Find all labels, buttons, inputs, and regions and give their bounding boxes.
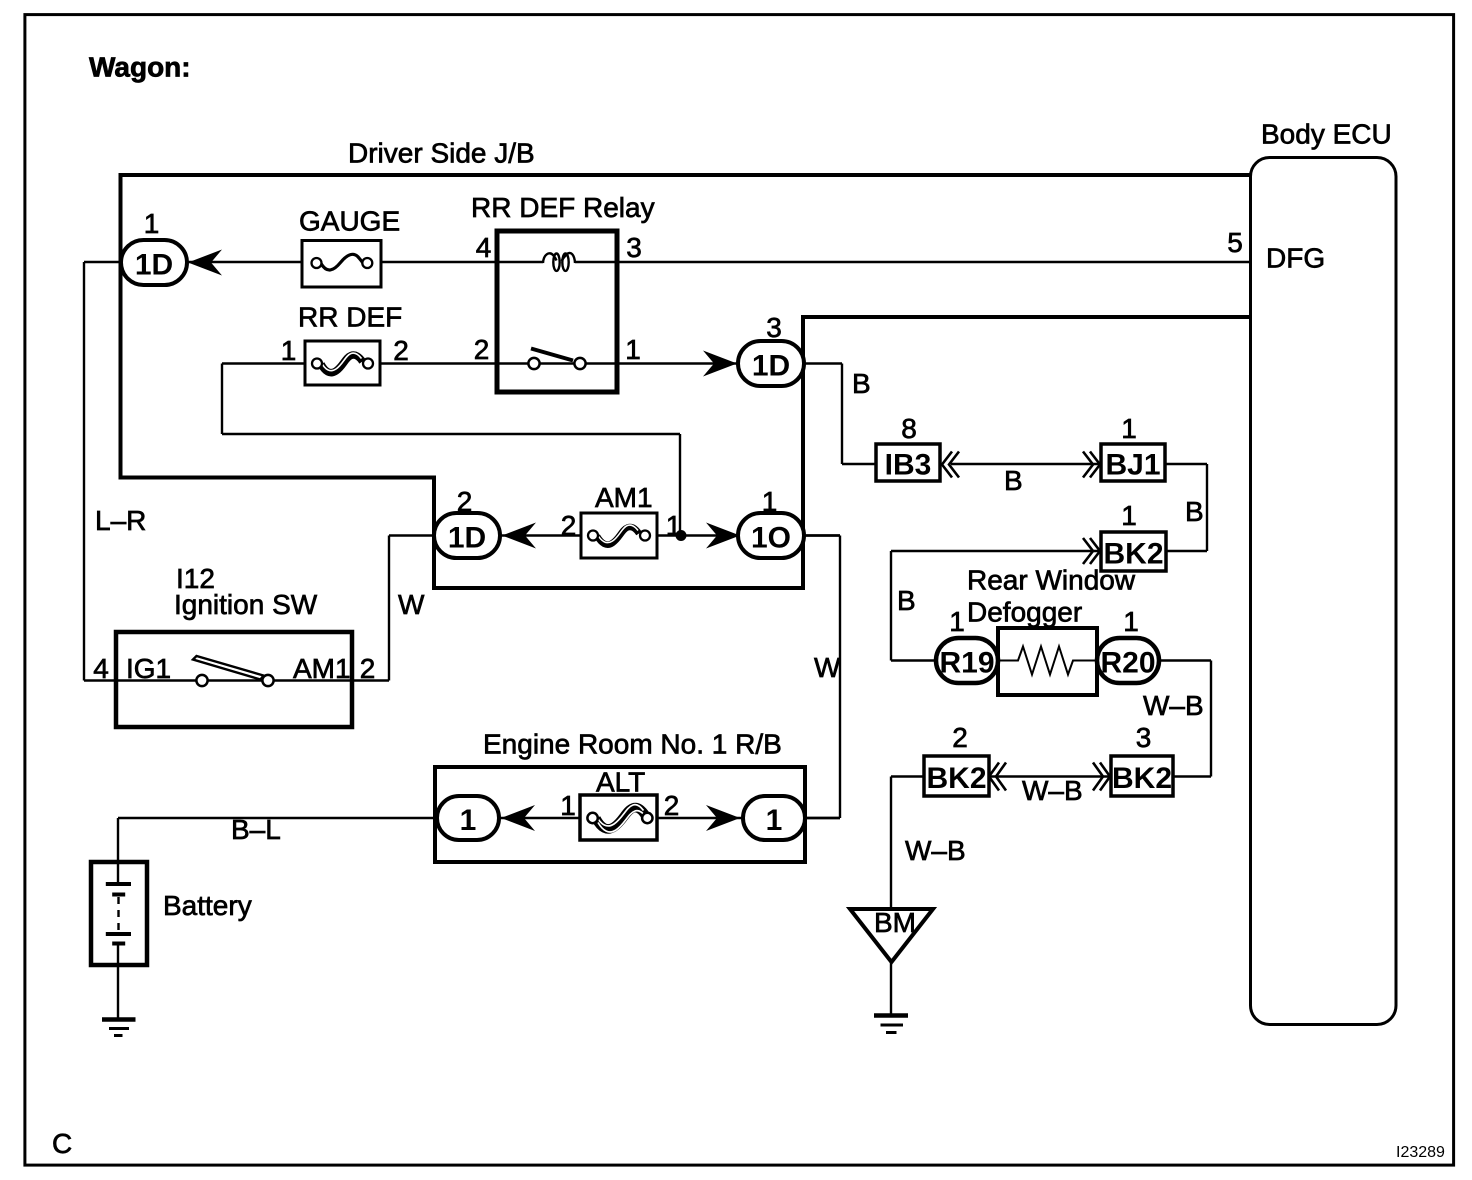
- ignition internal wire: [116, 679, 352, 681]
- svg-text:Ignition SW: Ignition SW: [174, 589, 318, 620]
- label RR DEF: [298, 302, 402, 333]
- connector oval R20: [1097, 638, 1159, 683]
- svg-text:BM: BM: [874, 907, 916, 938]
- svg-text:BK2: BK2: [926, 762, 986, 795]
- pin 8 above IB3: [901, 413, 917, 444]
- connector box BK2 pin2: [924, 756, 989, 796]
- arrow at 1D pin2: [502, 523, 536, 549]
- pin 4 ignition: [93, 653, 109, 684]
- svg-text:DFG: DFG: [1266, 243, 1325, 274]
- pin 3 relay: [626, 232, 642, 263]
- svg-text:1: 1: [762, 486, 778, 517]
- svg-text:L–R: L–R: [95, 505, 146, 536]
- arrow into R/B right oval: [706, 805, 740, 831]
- fuse ALT element: [587, 805, 652, 832]
- relay switch wire: [497, 362, 617, 364]
- svg-text:2: 2: [664, 790, 680, 821]
- svg-text:1: 1: [560, 790, 576, 821]
- svg-text:1: 1: [666, 510, 682, 541]
- wire BK2 pin2 to BM: [891, 777, 924, 910]
- svg-text:1: 1: [460, 804, 477, 837]
- pin 2 relay: [474, 334, 490, 365]
- fuse GAUGE box: [302, 241, 381, 288]
- ignition terminal AM1: [293, 653, 351, 684]
- svg-text:1: 1: [949, 606, 965, 637]
- pin 2 ALT: [664, 790, 680, 821]
- Engine Room No.1 R/B box: [435, 767, 805, 862]
- label I12: [176, 563, 215, 594]
- node B label near 1D pin3: [852, 368, 871, 399]
- wire BM to ground: [890, 962, 892, 1015]
- svg-text:AM1: AM1: [595, 482, 653, 513]
- fuse RR DEF element: [312, 353, 373, 373]
- svg-text:W: W: [814, 652, 841, 683]
- svg-text:RR DEF: RR DEF: [298, 302, 402, 333]
- pin 3 above 1D: [766, 312, 782, 343]
- svg-text:C: C: [52, 1128, 72, 1159]
- node B label at R19: [897, 585, 916, 616]
- pin 1 above R19: [949, 606, 965, 637]
- svg-text:2: 2: [474, 334, 490, 365]
- connector oval 1D pin1: [121, 240, 187, 285]
- chevron after IB3: [942, 452, 959, 478]
- pin 3 above BK2: [1136, 722, 1152, 753]
- wire W from 1O to Engine Room R/B: [804, 536, 840, 819]
- svg-text:IB3: IB3: [885, 449, 932, 482]
- svg-text:3: 3: [626, 232, 642, 263]
- pin 5 ECU: [1227, 227, 1243, 258]
- ignition switch I12 box: [116, 632, 352, 727]
- fuse GAUGE element: [312, 254, 373, 270]
- svg-text:IG1: IG1: [126, 653, 171, 684]
- svg-text:B–L: B–L: [231, 814, 281, 845]
- wire B from 1D pin3 to IB3: [804, 364, 876, 465]
- svg-text:2: 2: [393, 335, 409, 366]
- ground BM: [874, 1016, 908, 1033]
- title Wagon:: [89, 52, 191, 83]
- svg-text:BJ1: BJ1: [1105, 449, 1160, 482]
- svg-text:W: W: [398, 589, 425, 620]
- pin 2 above 1D: [457, 486, 473, 517]
- connector oval R19: [936, 638, 998, 683]
- label Rear Window: [967, 565, 1136, 596]
- label Driver Side J/B: [348, 138, 535, 169]
- pin 1 relay: [625, 334, 641, 365]
- wire GAUGE row to ECU pin 5: [84, 261, 1251, 263]
- R/B internal wire: [435, 817, 805, 819]
- label RR DEF Relay: [471, 192, 655, 223]
- svg-text:1D: 1D: [135, 249, 173, 282]
- label Battery: [163, 890, 252, 921]
- node B label IB3-BJ1: [1004, 465, 1023, 496]
- arrow at 1D pin1: [188, 250, 222, 276]
- svg-text:1: 1: [1123, 606, 1139, 637]
- Body ECU box: [1251, 158, 1397, 1025]
- node L-R label: [95, 505, 146, 536]
- label Ignition SW: [174, 589, 318, 620]
- wire AM1 row: [389, 534, 840, 536]
- wire BK2 pin3 to BK2 pin2: [989, 775, 1111, 777]
- svg-text:ALT: ALT: [596, 767, 645, 798]
- pin 2 AM1: [561, 510, 577, 541]
- pin 2 ignition: [360, 653, 376, 684]
- node B label BJ1-BK2: [1185, 496, 1204, 527]
- node W-B label under R20: [1143, 690, 1204, 721]
- label GAUGE: [299, 206, 400, 237]
- pin 2 above BK2: [952, 722, 968, 753]
- arrow into 1D pin3: [703, 351, 737, 377]
- svg-text:W–B: W–B: [905, 835, 966, 866]
- svg-text:RR DEF Relay: RR DEF Relay: [471, 192, 655, 223]
- ground point BM triangle: [850, 907, 933, 962]
- svg-text:W–B: W–B: [1143, 690, 1204, 721]
- svg-text:B: B: [1185, 496, 1204, 527]
- svg-text:1: 1: [1121, 413, 1137, 444]
- ignition contacts: [196, 675, 273, 686]
- svg-text:1D: 1D: [448, 522, 486, 555]
- label Defogger: [967, 597, 1082, 628]
- svg-text:3: 3: [766, 312, 782, 343]
- relay RR DEF Relay box: [497, 231, 617, 392]
- chevron before BJ1: [1083, 452, 1100, 478]
- pin 1 above 1O: [762, 486, 778, 517]
- node W-B label BK2-BK2: [1022, 775, 1083, 806]
- svg-text:1: 1: [766, 804, 783, 837]
- defogger resistor element: [998, 647, 1097, 675]
- relay coil: [497, 253, 617, 271]
- wire RR DEF row: [222, 362, 738, 364]
- label AM1: [595, 482, 653, 513]
- ignition terminal IG1: [126, 653, 171, 684]
- svg-text:Engine Room No. 1 R/B: Engine Room No. 1 R/B: [483, 729, 782, 760]
- node W-B label above BM: [905, 835, 966, 866]
- connector box BJ1: [1101, 444, 1165, 482]
- wire L-R vertical: [84, 262, 118, 681]
- svg-text:3: 3: [1136, 722, 1152, 753]
- chevron before BK2 pin1: [1083, 538, 1100, 564]
- fuse AM1 element: [588, 525, 650, 545]
- pin 1 ALT: [560, 790, 576, 821]
- pin 1 above BK2: [1121, 500, 1137, 531]
- pin 2 RR DEF: [393, 335, 409, 366]
- svg-text:5: 5: [1227, 227, 1243, 258]
- pin 1 RR DEF: [281, 335, 297, 366]
- svg-text:Driver Side J/B: Driver Side J/B: [348, 138, 535, 169]
- wire ignition switch row: [116, 536, 389, 681]
- connector oval 1O pin1: [738, 513, 804, 558]
- svg-text:1: 1: [144, 208, 160, 239]
- pin 1 above 1D: [144, 208, 160, 239]
- svg-text:I23289: I23289: [1396, 1144, 1445, 1161]
- node B-L label: [231, 814, 281, 845]
- arrow at R/B left oval: [501, 805, 535, 831]
- arrow into 1O: [706, 523, 740, 549]
- svg-text:Battery: Battery: [163, 890, 252, 921]
- relay switch contacts: [528, 358, 585, 369]
- Driver Side J/B outline: [121, 175, 1251, 588]
- footer I23289: [1396, 1144, 1445, 1161]
- svg-text:Rear Window: Rear Window: [967, 565, 1136, 596]
- connector box BK2 pin3: [1111, 756, 1173, 796]
- svg-text:2: 2: [561, 510, 577, 541]
- wire IB3 to BJ1: [951, 463, 1101, 465]
- wire RR DEF to AM1 junction route: [222, 364, 680, 536]
- svg-text:BK2: BK2: [1112, 762, 1172, 795]
- connector box BK2 pin1: [1101, 532, 1166, 571]
- svg-text:Defogger: Defogger: [967, 597, 1082, 628]
- fuse ALT box: [580, 795, 657, 840]
- battery cells: [106, 862, 131, 1019]
- wire BJ1 to BK2 pin1: [1165, 464, 1207, 551]
- pin 1 above R20: [1123, 606, 1139, 637]
- ignition blade: [193, 656, 264, 680]
- ground battery: [102, 1020, 136, 1036]
- svg-text:1: 1: [1121, 500, 1137, 531]
- svg-text:2: 2: [952, 722, 968, 753]
- svg-text:R19: R19: [939, 647, 994, 680]
- wire BK2 pin1 to R19: [891, 551, 1101, 661]
- wire R20 to BK2 pin3: [1159, 661, 1211, 777]
- label Body ECU: [1261, 119, 1392, 150]
- node W label ignition: [398, 589, 425, 620]
- connector oval 1 right R/B: [743, 796, 805, 840]
- label Engine Room No. 1 R/B: [483, 729, 782, 760]
- pin 4 relay: [476, 232, 492, 263]
- svg-text:B: B: [1004, 465, 1023, 496]
- svg-text:4: 4: [476, 232, 492, 263]
- svg-text:1: 1: [625, 334, 641, 365]
- svg-text:B: B: [852, 368, 871, 399]
- node W label vertical: [814, 652, 841, 683]
- fuse AM1 box: [581, 513, 657, 558]
- chevron before BK2 pin3: [1093, 763, 1110, 791]
- label ALT: [596, 767, 645, 798]
- svg-text:4: 4: [93, 653, 109, 684]
- svg-text:Wagon:: Wagon:: [89, 52, 191, 83]
- svg-text:2: 2: [457, 486, 473, 517]
- fuse RR DEF box: [305, 341, 380, 385]
- connector oval 1D pin3: [738, 341, 804, 386]
- svg-text:1O: 1O: [751, 522, 791, 555]
- svg-text:2: 2: [360, 653, 376, 684]
- svg-text:Body ECU: Body ECU: [1261, 119, 1392, 150]
- chevron after BK2 pin2: [989, 763, 1006, 791]
- svg-text:8: 8: [901, 413, 917, 444]
- connector oval 1 left R/B: [437, 796, 499, 840]
- svg-text:AM1: AM1: [293, 653, 351, 684]
- connector box IB3: [876, 444, 940, 482]
- ECU terminal DFG: [1266, 243, 1325, 274]
- footer C: [52, 1128, 72, 1159]
- svg-text:GAUGE: GAUGE: [299, 206, 400, 237]
- wire battery B-L row: [118, 818, 840, 884]
- pin 1 above BJ1: [1121, 413, 1137, 444]
- connector oval 1D pin2: [434, 513, 500, 558]
- junction dot AM1 pin 1: [676, 530, 687, 541]
- svg-text:W–B: W–B: [1022, 775, 1083, 806]
- battery box: [91, 862, 147, 965]
- svg-text:R20: R20: [1100, 647, 1155, 680]
- svg-text:B: B: [897, 585, 916, 616]
- defogger resistor box: [998, 628, 1097, 695]
- svg-text:1D: 1D: [752, 350, 790, 383]
- pin 1 AM1: [666, 510, 682, 541]
- relay switch blade: [531, 349, 573, 361]
- svg-text:1: 1: [281, 335, 297, 366]
